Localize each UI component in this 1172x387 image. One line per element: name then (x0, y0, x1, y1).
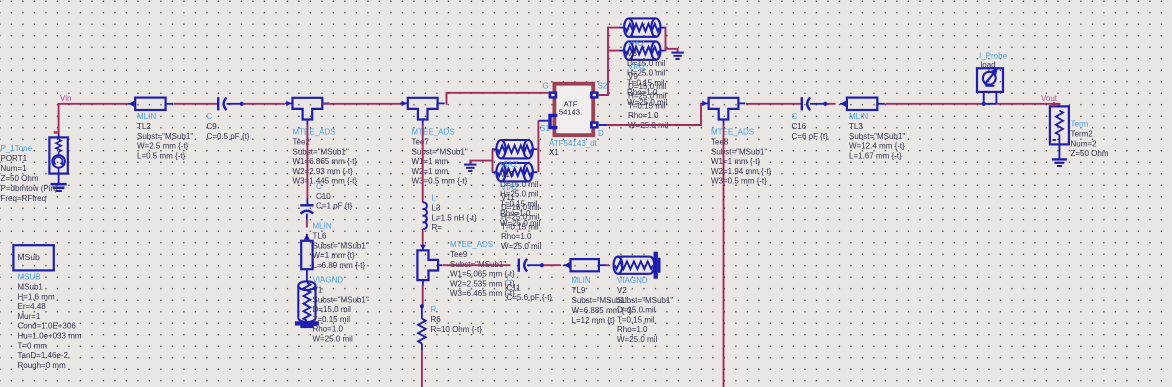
svg-text:Num=1: Num=1 (1, 164, 28, 173)
svg-text:Rho=1.0: Rho=1.0 (617, 325, 648, 334)
via VIA2 V9 top stack lower (624, 41, 633, 59)
svg-text:Subst="MSub1": Subst="MSub1" (313, 241, 369, 250)
wire: C16 to TL3 (827, 103, 836, 105)
svg-text:MLIN: MLIN (313, 222, 332, 231)
wire: Tee2 to Tee7 (323, 103, 403, 105)
wire: TL3 to I_Probe (885, 103, 982, 105)
node dot at C11 output (540, 263, 544, 267)
tee MTEE_ADS Tee8 (709, 98, 739, 120)
svg-text:Hu=1.0e+033 mm: Hu=1.0e+033 mm (18, 332, 82, 341)
wire: Tee7 stem down to L3 (422, 125, 424, 203)
tee MTEE_ADS Tee7 (408, 98, 438, 120)
svg-text:W=1 mm {t}: W=1 mm {t} (313, 251, 355, 260)
capacitor C10 (300, 204, 313, 206)
via VIA2 V8 top stack upper (624, 18, 633, 36)
svg-text:W=25.0 mil: W=25.0 mil (313, 335, 353, 344)
microstrip line TL3 (847, 98, 877, 110)
svg-text:H=25.0 mil: H=25.0 mil (628, 92, 667, 101)
svg-text:T=0.15 mil: T=0.15 mil (501, 222, 539, 231)
wire: Term2 to ground (1058, 144, 1060, 158)
svg-text:MLIN: MLIN (137, 112, 156, 121)
pin S1 of X1 (550, 115, 557, 127)
svg-text:H=1.6 mm: H=1.6 mm (18, 292, 55, 301)
via VIA2 V11 lower-left stack (496, 163, 505, 181)
svg-text:V1: V1 (313, 286, 323, 295)
svg-text:Num=2: Num=2 (1071, 139, 1098, 148)
ground for Term2 (1052, 158, 1067, 160)
svg-text:Vin: Vin (60, 94, 71, 103)
svg-text:D=15.0 mil: D=15.0 mil (313, 305, 352, 314)
ground for PORT1 (51, 183, 67, 186)
svg-text:H=25.0 mil: H=25.0 mil (501, 213, 540, 222)
terminator Term2 (1050, 106, 1069, 144)
svg-text:MSub: MSub (18, 252, 40, 262)
svg-text:Term: Term (1071, 120, 1089, 129)
svg-text:Tee7: Tee7 (412, 138, 430, 147)
svg-text:W2=1 mm: W2=1 mm (412, 167, 449, 176)
capacitor C11 (518, 259, 520, 272)
svg-text:MLIN: MLIN (849, 112, 868, 121)
svg-text:VIAGND: VIAGND (617, 276, 648, 285)
svg-text:L=1.67 mm {-t}: L=1.67 mm {-t} (849, 151, 902, 160)
wire: left side of via stack to ground (492, 149, 494, 172)
svg-text:Z=50 Ohm: Z=50 Ohm (1, 174, 39, 183)
wire: Tee8 stem down to edge (723, 125, 725, 387)
svg-text:MSUB: MSUB (18, 273, 41, 282)
svg-text:L: L (432, 194, 437, 203)
wire: TL6 to VIAGND V1 (306, 277, 308, 282)
svg-text:W2=2.93 mm {-t}: W2=2.93 mm {-t} (293, 167, 354, 176)
svg-text:I_Probe: I_Probe (979, 52, 1008, 61)
svg-text:D=15.0 mil: D=15.0 mil (617, 306, 656, 315)
svg-text:P=dbmtow (Pin): P=dbmtow (Pin) (1, 184, 58, 193)
svg-text:ATF54143_dt: ATF54143_dt (549, 139, 598, 148)
wire: I_Probe to Term2 (996, 104, 1059, 107)
wire: drain D to Tee8 (599, 124, 607, 126)
wire: R6 down to edge (421, 351, 423, 387)
svg-text:R6: R6 (431, 315, 442, 324)
svg-text:R: R (431, 305, 437, 314)
svg-text:C: C (207, 112, 213, 121)
wire: Tee9 stem to C11 (443, 264, 511, 266)
resistor R6 (421, 306, 423, 318)
svg-text:Z=50 Ohm: Z=50 Ohm (1071, 149, 1109, 158)
svg-text:W=25.0 mil: W=25.0 mil (617, 335, 657, 344)
svg-text:TL9: TL9 (572, 286, 586, 295)
svg-text:T=0.15 mil: T=0.15 mil (617, 315, 655, 324)
wire: Tee7 right to transistor gate (446, 93, 549, 104)
svg-text:Subst="MSub1": Subst="MSub1" (617, 296, 673, 305)
svg-text:C=0.5 pF {t}: C=0.5 pF {t} (207, 132, 250, 141)
svg-text:W1=5.065 mm {-t}: W1=5.065 mm {-t} (450, 270, 515, 279)
svg-text:Subst="MSub1": Subst="MSub1" (293, 147, 349, 156)
svg-text:V8: V8 (627, 49, 637, 58)
svg-text:VIAGND: VIAGND (313, 276, 344, 285)
svg-text:Tee9: Tee9 (450, 250, 468, 259)
wire: C9 to Tee2 (243, 103, 285, 105)
svg-text:W3=1.445 mm {-t}: W3=1.445 mm {-t} (293, 177, 358, 186)
svg-text:R=10 Ohm {-t}: R=10 Ohm {-t} (431, 325, 483, 334)
inductor L3 (423, 202, 427, 229)
svg-text:VIA2: VIA2 (628, 62, 646, 71)
svg-text:W1=1 mm {-t}: W1=1 mm {-t} (711, 157, 760, 166)
transistor ATF54143 X1 (554, 84, 593, 135)
svg-text:C=6 pF {t}: C=6 pF {t} (792, 132, 829, 141)
svg-text:L=12 mm {t}: L=12 mm {t} (572, 316, 616, 325)
svg-text:W=2.5 mm {-t}: W=2.5 mm {-t} (137, 142, 189, 151)
svg-text:C16: C16 (792, 122, 807, 131)
svg-text:C10: C10 (316, 192, 331, 201)
tee MTEE_ADS Tee2 (293, 98, 323, 120)
wire: right side of top via stack (664, 28, 667, 51)
svg-text:C9: C9 (207, 122, 218, 131)
svg-text:Cond=1.0E+306: Cond=1.0E+306 (18, 322, 77, 331)
capacitor C16 (801, 97, 803, 110)
svg-text:MTEE_ADS: MTEE_ADS (412, 128, 455, 137)
current probe I_Probe load (977, 68, 1003, 92)
svg-text:VIA2: VIA2 (627, 39, 645, 48)
svg-text:Subst="MSub1": Subst="MSub1" (849, 132, 905, 141)
pin D of X1 (590, 121, 599, 128)
svg-text:W=25.0 mil: W=25.0 mil (501, 242, 541, 251)
port P_1Tone PORT1 (49, 137, 67, 173)
svg-text:V10: V10 (500, 170, 515, 179)
svg-text:MTEE_ADS: MTEE_ADS (450, 240, 493, 249)
node dot above R6 (420, 304, 424, 308)
svg-text:W3=0.5 mm {-t}: W3=0.5 mm {-t} (412, 177, 468, 186)
svg-text:Tee8: Tee8 (711, 138, 729, 147)
wire: input net Vin from port to TL2 (59, 104, 129, 134)
wire: C11 to TL9 (543, 264, 561, 266)
svg-text:MTEE_ADS: MTEE_ADS (293, 128, 336, 137)
wire: Tee8 to C16 (746, 103, 801, 105)
node dot at C9 output (240, 102, 244, 106)
svg-text:D: D (598, 129, 604, 138)
svg-text:C: C (316, 182, 322, 191)
svg-text:Er=4.48: Er=4.48 (18, 302, 47, 311)
svg-text:V9: V9 (628, 72, 638, 81)
svg-text:TanD=1.46e-2: TanD=1.46e-2 (18, 351, 69, 360)
svg-text:L3: L3 (432, 204, 441, 213)
svg-text:MSub1: MSub1 (18, 283, 44, 292)
svg-text:P_1Tone: P_1Tone (1, 144, 33, 153)
svg-text:T=0 mm: T=0 mm (18, 341, 48, 350)
svg-text:G: G (543, 82, 549, 91)
ground for via stack V8 V9 (671, 52, 683, 54)
svg-text:MTEE_ADS: MTEE_ADS (711, 128, 754, 137)
svg-text:L=6.89 mm {-t}: L=6.89 mm {-t} (313, 261, 366, 270)
svg-text:Subst="MSub1": Subst="MSub1" (711, 147, 767, 156)
svg-text:V11: V11 (501, 193, 515, 202)
svg-text:W1=1 mm: W1=1 mm (412, 157, 449, 166)
microstrip line TL9 (571, 259, 599, 271)
wire: right side of via stack up to S1 (537, 121, 539, 173)
capacitor C9 (217, 97, 219, 110)
ground for via stack V10 V11 (464, 164, 476, 166)
wire: Tee9 down to R6 (422, 285, 424, 306)
svg-text:Rough=0 mm: Rough=0 mm (18, 361, 67, 370)
svg-text:TL3: TL3 (849, 122, 863, 131)
svg-text:Subst="MSub1": Subst="MSub1" (137, 132, 193, 141)
svg-text:Subst="MSub1": Subst="MSub1" (313, 295, 369, 304)
microstrip line TL6 vertical (301, 241, 312, 269)
wire: Tee2 stem down to C10 (306, 125, 308, 199)
node dot below I_Probe (982, 102, 986, 106)
svg-text:C=5.6 pF {-t}: C=5.6 pF {-t} (507, 293, 553, 302)
svg-text:TL6: TL6 (313, 232, 327, 241)
svg-text:W1=6.865 mm {-t}: W1=6.865 mm {-t} (293, 157, 358, 166)
pin G of X1 (549, 91, 558, 98)
svg-text:PORT1: PORT1 (1, 154, 28, 163)
svg-text:C=1 pF {t}: C=1 pF {t} (316, 201, 353, 210)
svg-text:T=0.15 mil: T=0.15 mil (628, 101, 666, 110)
svg-text:V2: V2 (617, 286, 627, 295)
svg-text:X1: X1 (549, 148, 559, 157)
svg-text:L=1.5 nH {-t}: L=1.5 nH {-t} (432, 213, 477, 222)
svg-text:D=15.0 mil: D=15.0 mil (628, 82, 667, 91)
svg-text:S1: S1 (540, 124, 550, 133)
svg-text:Rho=1.0: Rho=1.0 (313, 325, 344, 334)
svg-text:C11: C11 (507, 284, 522, 293)
svg-text:Term2: Term2 (1071, 130, 1094, 139)
svg-text:T=0.15 mil: T=0.15 mil (313, 315, 351, 324)
wire: C10 to TL6 (306, 220, 308, 228)
wire: TL9 to VIAGND V2 (606, 264, 609, 266)
wire: S2 up to top via stack (599, 28, 620, 95)
svg-text:Freq=RFfreq: Freq=RFfreq (1, 194, 47, 203)
svg-text:C: C (792, 112, 798, 121)
svg-text:Rho=1.0: Rho=1.0 (501, 232, 532, 241)
via VIA2 V10 upper-left stack (496, 140, 505, 158)
svg-text:W2=2.535 mm {-t}: W2=2.535 mm {-t} (450, 279, 515, 288)
svg-text:C: C (507, 274, 513, 283)
MSub box (13, 245, 53, 270)
svg-text:L=0.5 mm {-t}: L=0.5 mm {-t} (137, 151, 186, 160)
svg-text:Subst="MSub1": Subst="MSub1" (412, 147, 468, 156)
wire: port to ground (58, 174, 60, 184)
svg-text:Vout: Vout (1041, 94, 1058, 103)
svg-text:VIA2: VIA2 (500, 160, 518, 169)
tee MTEE_ADS Tee9 (417, 250, 438, 280)
wire: TL2 to C9 (174, 103, 218, 105)
svg-text:TL2: TL2 (137, 122, 151, 131)
svg-text:MLIN: MLIN (572, 276, 591, 285)
svg-text:54143.: 54143. (559, 108, 582, 117)
svg-text:R=: R= (432, 223, 443, 232)
svg-text:W2=1.94 mm {-t}: W2=1.94 mm {-t} (711, 167, 772, 176)
svg-text:Mur=1: Mur=1 (18, 312, 41, 321)
wire: L3 to Tee9 (422, 229, 424, 246)
svg-text:load: load (981, 61, 996, 70)
pin S2 of X1 (590, 91, 599, 98)
svg-text:W=12.4 mm {-t}: W=12.4 mm {-t} (849, 142, 905, 151)
svg-text:W3=0.5 mm {-t}: W3=0.5 mm {-t} (711, 177, 767, 186)
microstrip line TL2 (135, 98, 165, 110)
via ground V2 (614, 257, 623, 274)
svg-text:S2: S2 (598, 82, 608, 91)
svg-text:VIA2: VIA2 (501, 183, 519, 192)
via ground V1 (298, 281, 315, 290)
svg-text:Rho=1.0: Rho=1.0 (628, 111, 659, 120)
svg-text:W3=6.465 mm {-t}: W3=6.465 mm {-t} (450, 289, 515, 298)
node dot after C16 (823, 102, 827, 106)
svg-text:D=15.0 mil: D=15.0 mil (501, 203, 540, 212)
